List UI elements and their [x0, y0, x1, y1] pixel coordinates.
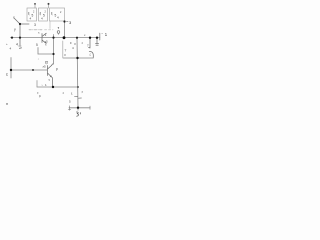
- junction dot node 3: [63, 20, 65, 22]
- wire diagonal into node B: [15, 19, 21, 25]
- wire bus down to curl: [89, 38, 90, 48]
- wire emitter link E2: [38, 53, 54, 55]
- wire stub below bus with open end C1: [19, 38, 22, 49]
- pin blob T1: [34, 3, 36, 5]
- label meter glyph circle: [57, 31, 60, 34]
- wire curl jumper at right of rail: [89, 52, 93, 58]
- junction dot bus x12: [11, 37, 13, 39]
- junction dot bus x53: [52, 37, 54, 39]
- resistor box R2: [39, 8, 48, 21]
- svg-text:x: x: [13, 16, 15, 20]
- wire x77 vertical bus to bottom node: [77, 38, 78, 108]
- svg-text:↓: ↓: [38, 58, 39, 61]
- label meter glyph triangle: [58, 27, 60, 29]
- ground right tick: [89, 106, 91, 109]
- junction dot bus x65: [63, 36, 66, 39]
- wire ground rail y108: [69, 107, 90, 109]
- wire stub below box R3 left edge: [49, 21, 51, 29]
- pin terminal T1 on top of R1/R2: [34, 4, 36, 8]
- bus end tick: [99, 33, 101, 40]
- wire node B down to bus: [19, 24, 21, 38]
- wire stub at left of emitter rail: [36, 81, 38, 88]
- pin blob T2: [48, 3, 50, 5]
- wire box R3 corner down to bus: [64, 21, 66, 38]
- svg-text:5: 5: [36, 43, 38, 47]
- wire input line y70: [11, 69, 48, 71]
- resistor box R3: [50, 8, 65, 21]
- junction dot input node: [10, 69, 12, 71]
- junction dot emitter link: [52, 53, 54, 55]
- wire stub below ground dot: [77, 108, 79, 111]
- svg-text:5: 5: [43, 14, 45, 18]
- svg-text:y: y: [14, 28, 16, 32]
- svg-text:3: 3: [34, 23, 36, 27]
- svg-text:5: 5: [32, 14, 34, 18]
- resistor box R1: [27, 8, 37, 21]
- svg-text:μ: μ: [65, 53, 67, 57]
- wire Q3 collector up: [53, 63, 54, 65]
- svg-text:+: +: [6, 42, 8, 46]
- wire node B to box R1: [20, 23, 29, 25]
- wire input vertical: [10, 58, 12, 79]
- junction dot bus x77: [76, 37, 78, 39]
- wire emitter rail y87: [37, 86, 78, 88]
- wire output tap tick to node 3: [67, 21, 69, 23]
- ground left tick: [68, 106, 71, 110]
- transistor Q3: [48, 64, 53, 87]
- wire main bus: [11, 37, 100, 39]
- junction dot node B: [19, 23, 21, 25]
- wire bus down to lower rail (riser x63): [62, 41, 64, 58]
- wire bus down to Q3 collector: [53, 35, 55, 65]
- junction dot rail-x78: [77, 86, 79, 88]
- svg-text:p: p: [56, 67, 58, 71]
- junction dot lower rail: [76, 57, 78, 59]
- svg-text:μ: μ: [75, 42, 77, 46]
- svg-text:β: β: [39, 94, 41, 98]
- junction dot bus x90: [89, 37, 91, 39]
- ground squiggle below node: [77, 112, 81, 116]
- junction dot bus x20: [19, 37, 21, 39]
- wire riser at x38: [37, 48, 39, 55]
- svg-text:F: F: [70, 41, 72, 45]
- junction dot ground node: [77, 107, 79, 109]
- junction dot bus x97: [96, 37, 98, 39]
- svg-text:~: ~: [101, 32, 103, 36]
- transistor Q2 on bus: [42, 33, 46, 43]
- svg-text:4: 4: [16, 43, 18, 47]
- capacitor C4 ticks on bottom vertical: [75, 96, 82, 98]
- svg-text:z5: z5: [43, 65, 47, 69]
- wire lower rail y58: [63, 57, 93, 59]
- pin terminal T2 on top of R2/R3: [48, 4, 50, 8]
- svg-text:n: n: [6, 101, 8, 106]
- junction dot input line x33: [32, 69, 34, 71]
- junction dot emitter rail: [52, 86, 54, 88]
- dash-dot partition line: [29, 29, 43, 31]
- wire stub with bar below bus x97: [96, 38, 99, 46]
